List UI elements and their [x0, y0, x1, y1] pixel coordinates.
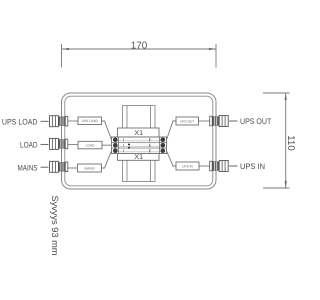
- wire LOAD label to terminal: [102, 144, 112, 146]
- wire MAINS label to terminal: [102, 151, 112, 168]
- label box LOAD: [78, 141, 102, 149]
- clamp tick row2 left: [123, 144, 125, 147]
- terminal rows: [112, 137, 167, 154]
- svg-text:MAINS: MAINS: [18, 164, 38, 173]
- enclosure inner wall: [65, 96, 213, 186]
- dimension 170 extension line right: [215, 44, 217, 68]
- dimension 110 extension line bottom: [263, 187, 290, 189]
- leader dash UPS OUT: [229, 120, 237, 122]
- svg-text:Syvyys 93 mm: Syvyys 93 mm: [50, 196, 60, 256]
- leader dash MAINS: [41, 166, 49, 168]
- svg-text:UPS OUT: UPS OUT: [240, 117, 271, 126]
- svg-text:LOAD: LOAD: [86, 144, 95, 148]
- svg-text:170: 170: [131, 40, 148, 51]
- clamp tick row1 left: [123, 138, 125, 141]
- cable gland MAINS (left wall): [50, 161, 68, 172]
- junction dot lower: [128, 147, 130, 149]
- terminal screw right row2: [161, 143, 166, 148]
- enclosure outer wall: [62, 93, 217, 189]
- svg-text:UPS OUT: UPS OUT: [180, 119, 194, 123]
- cable gland UPS OUT (right wall): [210, 116, 229, 127]
- leader dash UPS LOAD: [41, 120, 49, 122]
- svg-text:X1: X1: [134, 130, 143, 137]
- wire UPS IN label to terminal: [167, 151, 177, 166]
- label box UPS LOAD: [78, 117, 102, 125]
- cable duct: [123, 106, 156, 182]
- wire UPS OUT box to gland: [199, 120, 210, 122]
- dimension 170 line: [62, 48, 216, 50]
- svg-text:UPS LOAD: UPS LOAD: [2, 117, 38, 126]
- leader dash LOAD: [41, 143, 49, 145]
- svg-text:UPS LOAD: UPS LOAD: [82, 119, 99, 123]
- dimension 110 arrow bottom: [285, 181, 287, 188]
- wire UPS IN box to gland: [199, 165, 210, 167]
- label box MAINS: [78, 164, 102, 172]
- terminal block X1 bottom: [118, 154, 160, 162]
- leader dash UPS IN: [229, 165, 237, 167]
- cable gland LOAD (left wall): [50, 138, 68, 149]
- cable gland UPS IN (right wall): [210, 161, 229, 172]
- svg-text:LOAD: LOAD: [20, 141, 38, 150]
- terminal screw left row2: [113, 143, 118, 148]
- svg-text:X1: X1: [134, 154, 143, 161]
- terminal screw left row3: [113, 148, 118, 153]
- terminal screw left row1: [113, 138, 118, 143]
- dimension 110 arrow top: [285, 93, 287, 100]
- wire UPS LOAD label to terminal: [102, 121, 112, 140]
- dimension 170 arrow right: [209, 48, 216, 50]
- wire gland to LOAD box: [68, 144, 78, 146]
- wire gland to MAINS box: [68, 167, 78, 169]
- terminal screw right row1: [161, 138, 166, 143]
- label box UPS IN: [176, 162, 199, 170]
- svg-text:UPS IN: UPS IN: [240, 162, 265, 171]
- junction dot upper: [128, 144, 130, 146]
- dimension 170 arrow left: [62, 48, 69, 50]
- terminal screw right row3: [161, 148, 166, 153]
- svg-text:UPS IN: UPS IN: [182, 164, 193, 168]
- svg-text:110: 110: [285, 135, 296, 151]
- svg-text:MAINS: MAINS: [84, 166, 94, 170]
- wire gland to UPS LOAD box: [68, 120, 78, 122]
- clamp tick row2 right: [149, 144, 151, 147]
- cable gland UPS LOAD (left wall): [50, 116, 68, 127]
- label box UPS OUT: [176, 117, 199, 125]
- terminal block X1 top: [118, 128, 160, 137]
- clamp tick row3 left: [123, 149, 125, 152]
- clamp tick row1 right: [149, 138, 151, 141]
- clamp tick row3 right: [149, 149, 151, 152]
- wire UPS OUT label to terminal: [167, 121, 177, 140]
- dimension 110 line: [285, 93, 287, 188]
- dimension 110 extension line top: [263, 92, 290, 94]
- dimension 170 extension line left: [61, 44, 63, 68]
